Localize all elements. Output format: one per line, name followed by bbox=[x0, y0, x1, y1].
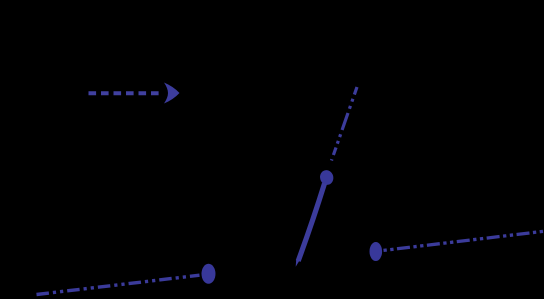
diagonal dash-dot line bbox=[332, 87, 358, 161]
dashed arrow shaft bbox=[89, 91, 162, 95]
bottom-left dash-dot-dot line bbox=[37, 275, 200, 294]
solid segment taper tip bbox=[296, 259, 301, 267]
arrowhead bbox=[164, 83, 180, 104]
right dash-dot-dot line bbox=[384, 231, 544, 250]
node ellipse left bbox=[202, 264, 216, 284]
node ellipse right bbox=[370, 242, 383, 261]
node dot (circle on diagonal) bbox=[318, 169, 335, 187]
solid segment bbox=[298, 184, 324, 262]
